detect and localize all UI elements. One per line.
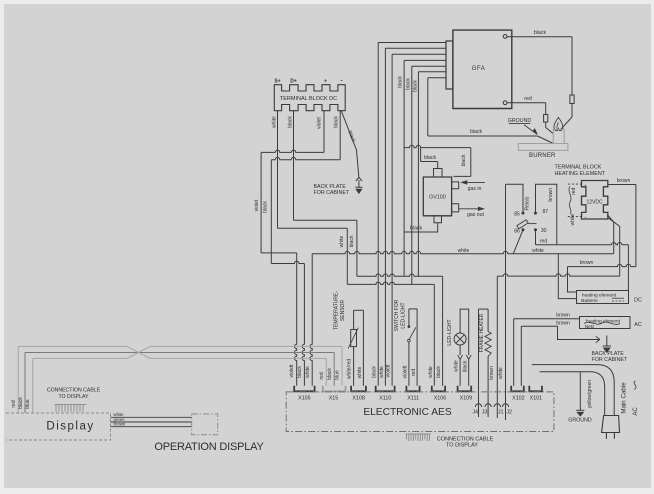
svg-text:violett: violett — [386, 364, 392, 378]
svg-text:86: 86 — [514, 228, 520, 234]
svg-text:white/red: white/red — [346, 359, 352, 380]
terminal X15 block — [323, 386, 346, 392]
dashed wire red to 12VDC — [568, 183, 582, 185]
svg-text:85: 85 — [514, 211, 520, 217]
svg-text:TO DISPLAY: TO DISPLAY — [446, 442, 478, 448]
svg-text:BACK PLATE: BACK PLATE — [592, 351, 625, 357]
terminal X110 block — [376, 386, 395, 392]
GV100 gas in stub — [452, 182, 459, 189]
svg-text:black: black — [405, 78, 411, 90]
GFA left connector strip — [446, 41, 453, 89]
wire red vertical — [545, 103, 547, 115]
wire back plate cabinet right — [558, 326, 600, 339]
wire GFA bundle 6 vertical — [417, 72, 419, 150]
svg-text:white: white — [454, 360, 460, 372]
wire burner electrode diagonal — [537, 136, 553, 144]
wire X102 pin1 vertical — [513, 319, 515, 386]
LED left wire down — [459, 345, 461, 355]
wire black2 horizontal to left rail — [271, 157, 340, 159]
ground triangle (main cable) — [577, 412, 583, 416]
ground stem (back plate right) — [606, 336, 608, 347]
wire black net to X106 pin2 — [442, 276, 444, 386]
svg-text:J3: J3 — [482, 410, 488, 416]
svg-text:red: red — [524, 96, 532, 102]
svg-text:gas in: gas in — [468, 186, 482, 192]
wire bundle4 vertical to y276 — [403, 150, 405, 276]
GFA terminal circle bottom — [503, 101, 507, 105]
GV100 box — [423, 177, 451, 216]
svg-text:black: black — [436, 366, 442, 378]
wire blue display — [32, 358, 34, 413]
relay terminal 85 dot — [522, 212, 524, 214]
svg-text:black: black — [287, 116, 293, 128]
ground triangle (back plate left) — [356, 189, 361, 193]
frame heater resistor zigzag — [485, 332, 491, 357]
svg-text:heating element: heating element — [586, 318, 621, 324]
svg-text:GV100: GV100 — [429, 195, 446, 201]
svg-text:Main Cable: Main Cable — [620, 382, 627, 414]
wire black diagonal to back plate — [341, 111, 359, 177]
LED loop — [460, 309, 469, 355]
display cable X crossing b — [127, 346, 150, 358]
svg-text:black: black — [263, 201, 269, 213]
wire red diagonal to burner — [546, 128, 554, 134]
wire black GFA top horizontal — [507, 36, 572, 38]
svg-text:12VDC: 12VDC — [587, 199, 604, 205]
svg-text:FOR CABINET: FOR CABINET — [592, 357, 628, 363]
cable squiggle 12VDC — [569, 187, 571, 215]
burner flame inner — [557, 123, 558, 129]
svg-text:HEATING ELEMENT: HEATING ELEMENT — [555, 171, 606, 177]
temp sensor right wire — [362, 310, 364, 386]
wire white to batterie — [558, 254, 576, 299]
wire GFA bundle 4 horizontal — [404, 59, 446, 61]
DC symbol solid line — [612, 297, 624, 299]
wire black diagonal to burner — [561, 117, 572, 129]
wire white from DC block down — [277, 111, 279, 229]
svg-text:TEMPERATURE-: TEMPERATURE- — [334, 291, 340, 330]
wire black net vert x356 — [356, 220, 358, 276]
svg-text:TERMINAL BLOCK DC: TERMINAL BLOCK DC — [280, 96, 337, 102]
svg-text:Display: Display — [46, 421, 94, 433]
terminal X101 block — [529, 386, 542, 392]
DC symbol dashed line — [612, 300, 624, 302]
svg-text:gas out: gas out — [467, 212, 485, 218]
LED left wire to X109 — [459, 359, 461, 386]
svg-text:30: 30 — [541, 228, 547, 234]
wire brown X102a — [514, 318, 580, 320]
temp sensor loop top — [354, 309, 364, 311]
GV100 top stub — [434, 169, 443, 178]
svg-text:Batterie: Batterie — [581, 298, 598, 304]
svg-text:D+: D+ — [290, 79, 297, 85]
svg-text:GROUND: GROUND — [568, 417, 592, 423]
svg-text:FRAME HEATER: FRAME HEATER — [479, 313, 485, 352]
svg-text:brown: brown — [114, 422, 126, 427]
svg-text:brown: brown — [548, 188, 554, 202]
wire white net to X106 pin1 — [433, 284, 435, 385]
wire violet rail to X105 pin1 — [261, 253, 297, 386]
svg-text:87: 87 — [543, 209, 549, 215]
svg-text:Netz: Netz — [585, 324, 595, 330]
wire brown to op display — [111, 426, 192, 428]
connector hatch (display) teeth — [56, 404, 83, 411]
display cable X crossing a — [127, 346, 150, 358]
terminal block DC outline — [274, 85, 345, 111]
wire GFA bundle 2 vertical — [384, 48, 386, 150]
connector on black wire — [570, 95, 574, 104]
frame heater right lower — [487, 357, 489, 418]
svg-text:black: black — [333, 116, 339, 128]
relay 30 wire down — [535, 231, 537, 245]
svg-text:X110: X110 — [379, 395, 391, 401]
svg-text:GFA: GFA — [472, 66, 486, 72]
svg-text:black: black — [18, 397, 24, 409]
relay contact loop right — [536, 184, 557, 245]
frame heater loop left — [478, 309, 480, 417]
svg-text:FOR CABINET: FOR CABINET — [314, 190, 350, 196]
wire GFA bundle 6 horizontal — [418, 71, 446, 73]
connector hatch (AES bottom) teeth — [407, 434, 430, 441]
Display box — [6, 413, 111, 440]
wire black GFA top vertical — [571, 37, 573, 95]
switch left upper — [408, 309, 410, 326]
operation display box — [192, 414, 218, 435]
display cable wire bottom — [33, 357, 327, 359]
display cable bend to X15 pin1 — [325, 358, 327, 385]
svg-text:J4: J4 — [472, 410, 478, 416]
svg-text:black: black — [462, 360, 468, 372]
AC squiggle (main cable) — [634, 381, 636, 390]
svg-text:-: - — [341, 79, 343, 85]
wire brown 12VDC horizontal — [608, 184, 636, 186]
wire white net vert x347 — [346, 228, 348, 284]
terminal X111 block — [406, 386, 419, 392]
12VDC terminal block — [582, 181, 608, 220]
svg-text:black: black — [349, 235, 355, 247]
back plate arrow chevron — [596, 336, 600, 342]
wire GFA ground horizontal stub — [428, 77, 446, 79]
switch contact dot — [408, 326, 410, 328]
svg-text:heating element: heating element — [582, 293, 617, 299]
gas in arrowhead — [461, 181, 466, 184]
svg-text:ELECTRONIC AES: ELECTRONIC AES — [363, 407, 452, 418]
svg-text:X105: X105 — [298, 395, 311, 401]
terminal X105 block — [294, 386, 314, 392]
wire black left rail down — [270, 160, 272, 264]
GFA box — [453, 30, 512, 108]
wire X110 pin3 vertical — [391, 150, 393, 386]
wire violet horizontal to left rail — [261, 150, 324, 152]
wire X110 pin1 vertical — [377, 150, 379, 386]
wire GFA bundle 4 vertical — [403, 60, 405, 150]
wire brown down to batterie — [568, 267, 577, 292]
gas out arrowhead — [478, 207, 483, 210]
wire red down to batterie — [627, 245, 629, 291]
terminal X102 block — [511, 386, 524, 392]
wire brown 12VDC down — [635, 185, 637, 267]
mains plug prong left — [605, 433, 607, 439]
svg-text:brown: brown — [556, 321, 570, 327]
svg-text:SWITCH FOR: SWITCH FOR — [394, 299, 400, 331]
wire red relay horizontal — [536, 243, 629, 245]
LED lamp circle — [454, 333, 466, 345]
svg-text:white: white — [271, 116, 277, 128]
wire black display — [24, 353, 26, 414]
wire yellow-green ground — [579, 372, 581, 411]
wire J3 connector arc — [485, 404, 491, 407]
svg-text:yellow/green: yellow/green — [587, 380, 593, 408]
dashed wire white to 12VDC — [568, 215, 582, 217]
GFA terminal circle top — [503, 34, 507, 38]
svg-text:black: black — [327, 368, 333, 380]
wire black to burner ground — [428, 135, 538, 137]
svg-text:violett: violett — [289, 364, 295, 378]
svg-text:white: white — [339, 235, 345, 247]
svg-text:black: black — [372, 366, 378, 378]
wire J2 connector arc — [502, 404, 508, 407]
svg-text:X111: X111 — [407, 395, 419, 401]
svg-text:Relais: Relais — [525, 196, 531, 210]
gas out arrow line — [459, 208, 482, 210]
wire green to op display — [111, 421, 192, 423]
frame heater right upper — [487, 309, 489, 331]
wire GFA bundle 1 vertical — [377, 43, 379, 151]
mains plug body — [602, 416, 620, 433]
svg-text:+: + — [584, 183, 587, 188]
mains plug prong right — [613, 433, 615, 439]
connector hatch (AES bottom) frame — [406, 433, 431, 435]
svg-text:X15: X15 — [329, 395, 339, 401]
svg-text:black: black — [412, 80, 418, 92]
temp sensor left lower — [353, 347, 355, 386]
relay armature — [517, 220, 528, 229]
svg-text:brown: brown — [556, 312, 570, 318]
svg-text:LED-LIGHT: LED-LIGHT — [401, 302, 407, 328]
svg-text:brown: brown — [580, 260, 594, 266]
wire brown X102b — [521, 325, 557, 327]
GV100 bottom stub — [434, 216, 442, 223]
wire J2 vertical (relay coil) — [505, 184, 507, 420]
LED lamp X — [456, 335, 464, 343]
display cable wire mid — [25, 352, 334, 354]
wire GFA bundle 3 horizontal — [392, 53, 446, 55]
wire GV100 black jog vertical — [420, 148, 422, 162]
switch left lower — [408, 342, 410, 386]
GROUND pointer diagonal — [524, 125, 536, 134]
wire GFA bundle 2 horizontal — [385, 47, 446, 49]
svg-text:J2: J2 — [506, 410, 512, 416]
wire GV100 black jog horizontal — [421, 161, 438, 163]
temp sensor body — [351, 330, 357, 347]
svg-text:violett: violett — [403, 365, 409, 379]
wire X102 pin2 vertical — [520, 326, 522, 386]
connector on red wire — [544, 115, 548, 123]
wire black2 from DC block down — [339, 111, 341, 160]
wire J1 vertical — [496, 276, 498, 418]
burner candle body — [553, 129, 564, 143]
svg-text:LED-LIGHT: LED-LIGHT — [447, 319, 453, 345]
wire black below connector — [571, 104, 573, 118]
svg-text:white: white — [532, 248, 544, 254]
wire black from DC block down — [293, 111, 295, 221]
svg-text:X101: X101 — [530, 395, 543, 401]
svg-text:white: white — [570, 213, 576, 225]
temp sensor diagonal — [348, 328, 358, 349]
ground bar (back plate right) — [603, 345, 611, 347]
svg-text:TERMINAL BLOCK: TERMINAL BLOCK — [555, 165, 602, 171]
svg-text:AC: AC — [633, 407, 639, 416]
relay armature link — [528, 223, 536, 225]
wire GV100 bottom — [404, 223, 438, 232]
LED arrow right — [466, 355, 471, 359]
switch blade — [409, 327, 416, 340]
svg-text:+: + — [324, 79, 327, 85]
wire X101 pin1 main cable outer — [532, 365, 614, 416]
AC wavy symbol — [584, 322, 620, 324]
svg-text:-: - — [585, 215, 587, 221]
svg-text:white: white — [357, 366, 363, 378]
relay terminal 87 dot — [534, 212, 536, 214]
svg-text:black: black — [398, 76, 404, 88]
wire violet from DC block down — [323, 111, 325, 153]
svg-text:red: red — [571, 187, 577, 194]
terminal X109 block — [458, 386, 472, 392]
temp sensor left upper — [353, 310, 355, 329]
burner base — [518, 144, 568, 151]
display cable wire top — [18, 345, 342, 347]
svg-text:black: black — [461, 154, 467, 166]
svg-text:violet: violet — [316, 117, 322, 129]
relay 86 diagonal to white wire — [513, 231, 522, 254]
wire 12VDC minus diag to white — [608, 215, 614, 254]
wire bundle6 vertical to y276 — [417, 150, 419, 276]
terminal X106 block — [432, 386, 445, 392]
svg-text:violet: violet — [254, 199, 260, 211]
burner flame — [554, 118, 563, 131]
wire white net horiz y284 — [347, 282, 434, 284]
wire white to op display — [111, 416, 192, 418]
svg-text:X106: X106 — [434, 395, 447, 401]
wire black net horiz y276 — [357, 274, 443, 276]
display cable bend to X15 pin2 — [333, 353, 335, 386]
wire red below connector — [545, 122, 547, 128]
svg-text:white: white — [305, 366, 311, 378]
wire black net horiz y220 — [294, 219, 357, 221]
wire GV100 top feed horizontal — [404, 145, 471, 147]
ground triangle (back plate right) — [604, 348, 610, 352]
wire 12VDC minus diag to J1 line — [608, 217, 620, 276]
svg-text:DC: DC — [634, 298, 642, 304]
wire GV100 top feed into box — [454, 175, 471, 177]
svg-text:S+: S+ — [274, 79, 280, 85]
GV100 gas out stub — [452, 204, 459, 212]
display cable bend to X15 pin3 — [341, 346, 343, 385]
svg-text:red: red — [540, 239, 547, 245]
relay terminal 30 dot — [534, 229, 536, 231]
svg-text:red: red — [319, 372, 325, 379]
wire bundle5 vertical to y284 — [411, 150, 413, 284]
LED arrow left — [458, 355, 463, 359]
svg-text:blue: blue — [25, 399, 31, 409]
svg-text:BACK PLATE: BACK PLATE — [314, 184, 347, 190]
wire white net horiz y228 — [278, 227, 348, 229]
heating element Batterie box — [577, 291, 629, 304]
connector hatch (display) frame — [55, 403, 87, 405]
wire X110 pin2 vertical — [384, 150, 386, 386]
svg-text:red: red — [411, 369, 417, 376]
wire GFA bundle 3 vertical — [391, 54, 393, 150]
svg-text:black: black — [424, 155, 437, 161]
wire GFA bundle 5 vertical — [411, 66, 413, 150]
svg-text:brown: brown — [489, 366, 495, 380]
wire red GFA horizontal — [507, 102, 546, 104]
relay coil loop left — [506, 184, 524, 212]
svg-text:red: red — [11, 400, 17, 407]
gas in arrow line — [463, 181, 485, 183]
wire J1 connector arc — [494, 404, 500, 407]
svg-text:white: white — [379, 366, 385, 378]
terminal X108 block — [351, 386, 366, 392]
relay terminal 86 dot — [522, 229, 524, 231]
wire black rail to X105 pin2 — [271, 261, 304, 386]
ground bar (main cable) — [576, 409, 584, 411]
svg-text:white: white — [458, 248, 470, 254]
svg-text:black: black — [534, 30, 547, 36]
svg-text:blue: blue — [335, 370, 341, 380]
svg-text:OPERATION DISPLAY: OPERATION DISPLAY — [154, 441, 264, 453]
frame heater top — [479, 308, 489, 310]
svg-text:AC: AC — [634, 322, 642, 328]
svg-text:brown: brown — [617, 178, 631, 184]
wire red display — [17, 346, 19, 413]
GROUND pointer arrowhead — [533, 129, 538, 134]
svg-text:J1: J1 — [498, 410, 504, 416]
wire X101 pin2 main cable inner — [540, 372, 605, 416]
wire J4 connector arc — [475, 404, 481, 407]
ground chevron (back plate left) — [356, 177, 362, 181]
GROUND label underline — [509, 122, 531, 124]
switch pivot circle — [408, 339, 411, 342]
svg-text:GROUND: GROUND — [508, 118, 532, 124]
svg-text:CONNECTION CABLE: CONNECTION CABLE — [47, 388, 101, 394]
wire GFA bundle 5 horizontal — [412, 65, 446, 67]
svg-text:TO DISPLAY: TO DISPLAY — [58, 394, 89, 400]
switch right wire — [416, 309, 418, 386]
heating element Netz box — [580, 317, 631, 329]
wire GFA bundle 1 horizontal — [378, 42, 446, 44]
svg-text:BURNER: BURNER — [529, 153, 556, 159]
svg-text:SENSOR: SENSOR — [340, 300, 346, 322]
wire violet left rail down — [260, 152, 262, 253]
wire white long horizontal — [312, 251, 614, 253]
wire GFA ground vertical — [427, 78, 429, 136]
wire GV100 top stub wire — [437, 162, 439, 169]
svg-text:black: black — [410, 225, 423, 231]
LED right wire to X109 — [468, 359, 470, 386]
wire J1 horizontal y276 — [497, 274, 619, 276]
ground stem (back plate left) — [358, 180, 360, 187]
wire white X105 pin3 up — [310, 254, 312, 386]
svg-text:X109: X109 — [460, 395, 473, 401]
wire brown horizontal y266 — [568, 264, 636, 266]
svg-text:white: white — [428, 366, 434, 378]
switch loop top — [409, 308, 417, 310]
svg-text:white: white — [498, 367, 504, 379]
ELECTRONIC AES box — [286, 392, 554, 432]
svg-text:black: black — [470, 129, 483, 135]
svg-text:X108: X108 — [352, 395, 365, 401]
